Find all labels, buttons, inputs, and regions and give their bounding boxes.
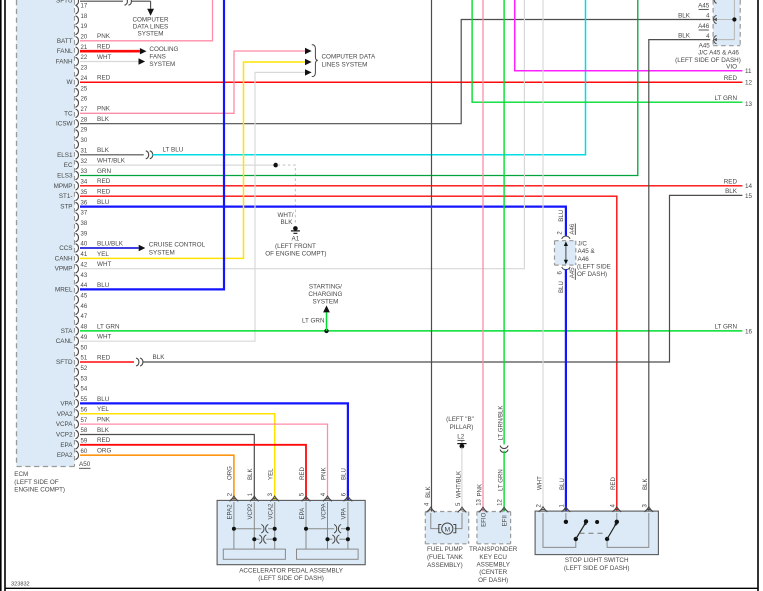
svg-text:VCP2: VCP2 <box>247 503 254 520</box>
stop light switch pin4 lead <box>616 513 618 520</box>
svg-text:30: 30 <box>81 138 88 144</box>
arrow computer data lines 1 <box>305 48 312 54</box>
ECM pin 35 ST1- <box>76 192 79 201</box>
wire LT BLU to top of page <box>153 0 586 155</box>
connector L2 symbol <box>461 441 463 443</box>
svg-text:WHT: WHT <box>97 261 111 268</box>
ECM pin 57 VCPA <box>76 420 79 429</box>
svg-text:CANL: CANL <box>56 338 73 345</box>
stop light switch contact dots left <box>574 537 578 541</box>
svg-text:VPMP: VPMP <box>55 266 73 273</box>
accelerator pedal pin 4 (VCPA) <box>323 499 331 502</box>
svg-text:EFII: EFII <box>502 515 509 526</box>
accelerator pedal pin 3 (VCA2) <box>271 499 279 502</box>
J/C dashed border bottom <box>713 45 740 47</box>
J/C pin A45 (clipped at top) <box>714 0 716 3</box>
svg-text:RED: RED <box>610 477 617 490</box>
svg-text:49: 49 <box>81 335 88 341</box>
svg-text:BLK: BLK <box>247 468 254 480</box>
svg-text:LT BLU: LT BLU <box>163 147 184 154</box>
junction block J/C A45 A46 (middle) <box>555 241 576 265</box>
ECM pin 47 <box>76 316 79 325</box>
wire VPMP WHT pin 42 to top of page <box>80 0 524 269</box>
svg-text:(LEFT SIDE OF DASH): (LEFT SIDE OF DASH) <box>564 565 630 572</box>
svg-text:60: 60 <box>81 449 88 455</box>
svg-text:48: 48 <box>81 325 88 331</box>
svg-text:19: 19 <box>81 24 88 30</box>
svg-text:WHT/BLK: WHT/BLK <box>455 471 462 498</box>
svg-text:A46: A46 <box>698 23 710 30</box>
svg-text:OF DASH): OF DASH) <box>478 577 508 584</box>
accelerator pedal assembly box <box>217 500 365 564</box>
svg-text:BATT: BATT <box>57 38 73 45</box>
wire SFTD RED pin 51 <box>80 361 134 363</box>
accelerator pedal internal leads <box>233 502 235 549</box>
ECM pin 26 <box>76 99 79 108</box>
stop light switch pin1 lead <box>565 513 567 520</box>
ECM pin 55 VPA <box>76 399 79 408</box>
svg-text:41: 41 <box>81 252 88 258</box>
accelerator pedal pin 1 (VCP2) <box>250 499 258 502</box>
wire BLU J/C A45 pin 6 to stop light switch pin 1 <box>565 269 567 511</box>
svg-text:35: 35 <box>81 190 88 196</box>
svg-text:BLU: BLU <box>558 281 565 293</box>
ECM pin 34 MPMP <box>76 182 79 191</box>
svg-text:18: 18 <box>81 14 88 20</box>
svg-text:46: 46 <box>81 304 88 310</box>
svg-text:56: 56 <box>81 408 88 414</box>
ground A1 <box>293 226 298 231</box>
ECM pin 22 FANH <box>76 57 79 66</box>
svg-text:1: 1 <box>559 504 565 508</box>
ECM pin 17 <box>76 5 79 14</box>
svg-text:37: 37 <box>81 211 88 217</box>
J/C internal junction dot <box>732 17 736 21</box>
ECM pin 52 <box>76 368 79 377</box>
stop light switch right blade <box>607 524 616 539</box>
svg-text:BLK: BLK <box>97 116 110 123</box>
svg-text:33: 33 <box>81 169 88 175</box>
J/C middle pin 2 arc <box>562 236 570 239</box>
ECM pin 54 <box>76 389 79 398</box>
svg-text:BLK: BLK <box>153 354 166 361</box>
accelerator pedal sensor sub-box 2 <box>297 549 359 559</box>
wire LT GRN to transponder pin 12 <box>503 451 505 512</box>
svg-text:4: 4 <box>425 502 431 506</box>
ECM pin 27 TC <box>76 109 79 118</box>
svg-text:WHT/: WHT/ <box>277 212 293 219</box>
wire VCP2 BLK pin 58 to accelerator pedal pin 1 <box>80 435 254 501</box>
svg-text:16: 16 <box>745 329 753 336</box>
svg-text:VCP2: VCP2 <box>56 432 73 439</box>
accelerator pedal sensor 2 lower bus <box>328 538 333 540</box>
arrow computer data lines 3 <box>305 69 312 75</box>
svg-text:YEL: YEL <box>97 406 109 413</box>
svg-text:1: 1 <box>248 492 254 496</box>
svg-text:15: 15 <box>745 193 753 200</box>
svg-text:CRUISE CONTROL: CRUISE CONTROL <box>149 241 206 248</box>
svg-text:PILLAR): PILLAR) <box>450 424 474 431</box>
wire TC PNK pin 27 to computer data lines system <box>80 51 305 113</box>
stop light switch mechanical link (dashed) <box>580 532 607 534</box>
inline connector ELS1 to LT BLU <box>146 151 149 159</box>
svg-text:RED: RED <box>724 75 738 82</box>
arrow into computer data lines system (top) <box>147 9 154 16</box>
svg-text:ST1-: ST1- <box>59 193 73 200</box>
svg-text:57: 57 <box>81 418 88 424</box>
page border bottom <box>5 587 758 589</box>
svg-text:RED: RED <box>299 467 306 480</box>
svg-text:28: 28 <box>81 117 88 123</box>
wire BLK J/C A45 pin 4 to stop light switch pin 3 <box>649 40 710 512</box>
svg-text:2: 2 <box>227 492 233 496</box>
svg-text:STA: STA <box>61 328 74 335</box>
svg-text:ECM: ECM <box>14 471 28 478</box>
accelerator pedal pin 5 (EPA) <box>302 499 310 502</box>
svg-text:54: 54 <box>81 387 88 393</box>
svg-text:LT GRN: LT GRN <box>302 318 325 325</box>
ECM pin 50 <box>76 347 79 356</box>
svg-text:24: 24 <box>81 76 88 82</box>
ECM pin 36 STP <box>76 202 79 211</box>
svg-text:BLK: BLK <box>97 427 110 434</box>
arrow to cooling fans system 2 <box>139 58 146 64</box>
svg-text:29: 29 <box>81 128 88 134</box>
wire PNK from top of page to transponder pin 13 <box>482 0 484 512</box>
svg-text:W: W <box>67 79 73 86</box>
svg-text:BLK: BLK <box>725 188 738 195</box>
svg-text:(LEFT SIDE OF: (LEFT SIDE OF <box>14 479 58 486</box>
ECM pin 31 ELS1 <box>76 151 79 160</box>
svg-text:FANH: FANH <box>56 59 73 66</box>
stop light switch pin 1 <box>562 509 570 512</box>
ECM pin 41 CANH <box>76 254 79 263</box>
wire EC WHT/BLK pin 32 <box>80 164 276 166</box>
svg-text:20: 20 <box>81 35 88 41</box>
svg-text:FANS: FANS <box>149 54 165 61</box>
svg-text:17: 17 <box>81 3 88 9</box>
wire ELS1 BLK pin 31 <box>80 154 144 156</box>
wire VPA BLU pin 55 to accelerator pedal pin 6 <box>80 403 348 500</box>
ECM pin 28 ICSW <box>76 119 79 128</box>
accelerator pedal sensor 1 lower bus <box>254 538 259 540</box>
ECM pin 39 <box>76 233 79 242</box>
svg-text:25: 25 <box>81 86 88 92</box>
wire MREL BLU pin 44 to top of page <box>80 0 224 289</box>
ECM pin 19 <box>76 26 79 35</box>
svg-text:31: 31 <box>81 149 88 155</box>
svg-text:BLU: BLU <box>341 468 348 480</box>
wire WHT/BLK L2 to fuel pump pin 5 <box>461 448 463 512</box>
ECM pin 58 VCP2 <box>76 430 79 439</box>
svg-text:(LEFT SIDE: (LEFT SIDE <box>577 263 611 270</box>
svg-text:36: 36 <box>81 200 88 206</box>
svg-text:ICSW: ICSW <box>56 121 72 128</box>
arrow to starting/charging system <box>323 305 330 312</box>
svg-text:ORG: ORG <box>97 448 111 455</box>
svg-text:MREL: MREL <box>55 286 73 293</box>
ECM pin 21 FANL <box>76 47 79 56</box>
svg-text:47: 47 <box>81 314 88 320</box>
svg-text:23: 23 <box>81 66 88 72</box>
ECM dashed border left <box>16 0 18 467</box>
svg-text:RED: RED <box>97 75 111 82</box>
accelerator pedal pin 6 (VPA) <box>344 499 352 502</box>
svg-text:STP: STP <box>60 204 72 211</box>
wire BLK from top of page to fuel pump pin 4 <box>431 0 433 512</box>
ECM pin 25 <box>76 88 79 97</box>
ECM pin 43 <box>76 275 79 284</box>
wire CANH YEL pin 41 to computer data lines system <box>80 62 305 258</box>
svg-text:COMPUTER: COMPUTER <box>132 16 168 23</box>
ECM pin 48 STA <box>76 327 79 336</box>
ECM pin 20 BATT <box>76 37 79 46</box>
accelerator pedal sensor 1 upper bus <box>234 528 262 530</box>
svg-text:RED: RED <box>97 354 111 361</box>
ECM pin 45 <box>76 296 79 305</box>
svg-text:FUEL PUMP: FUEL PUMP <box>427 546 463 553</box>
page border left inner <box>4 0 6 591</box>
svg-text:RED: RED <box>97 44 111 51</box>
J/C middle internal double arrow <box>565 245 567 262</box>
svg-text:EPA: EPA <box>60 442 73 449</box>
fuel pump motor symbol M <box>439 525 442 533</box>
stop light switch pin 3 <box>645 509 653 512</box>
ECM pin 51 SFTD <box>76 358 79 367</box>
ECM pin 18 <box>76 16 79 25</box>
accelerator pedal pin 2 (EPA2) <box>230 499 238 502</box>
svg-text:BLK: BLK <box>425 486 432 498</box>
ECM pin 53 <box>76 378 79 387</box>
svg-text:13: 13 <box>477 498 483 505</box>
svg-text:ELS3: ELS3 <box>57 173 73 180</box>
wire FANL RED pin 21 (thick) <box>80 50 140 53</box>
svg-text:TRANSPONDER: TRANSPONDER <box>469 546 518 553</box>
stop light switch pin 4 <box>613 509 621 512</box>
brace computer data lines system (right) <box>312 45 318 77</box>
arrow to cruise control system <box>139 245 146 251</box>
wire SFTD BLK to output 15 <box>143 195 743 362</box>
svg-text:ACCELERATOR PEDAL ASSEMBLY: ACCELERATOR PEDAL ASSEMBLY <box>239 567 344 574</box>
svg-text:12: 12 <box>745 80 753 87</box>
svg-text:OF ENGINE COMPT): OF ENGINE COMPT) <box>265 251 326 258</box>
svg-text:LT GRN/BLK: LT GRN/BLK <box>497 405 504 440</box>
wire EPA2 ORG pin 60 to accelerator pedal pin 2 <box>80 455 234 500</box>
svg-text:5: 5 <box>300 492 306 496</box>
ECM pin 24 W <box>76 78 79 87</box>
svg-text:WHT/BLK: WHT/BLK <box>97 158 126 165</box>
ECM dashed pin line <box>74 0 76 467</box>
svg-text:39: 39 <box>81 231 88 237</box>
junction block J/C A45 A46 (top right) fill <box>713 0 740 46</box>
svg-text:32: 32 <box>81 159 88 165</box>
ECM pin 42 VPMP <box>76 264 79 273</box>
svg-text:VPA2: VPA2 <box>57 411 73 418</box>
svg-text:SFTU: SFTU <box>56 0 73 4</box>
svg-text:11: 11 <box>745 68 752 75</box>
ECM pin 40 CCS <box>76 244 79 253</box>
svg-text:EC: EC <box>64 162 73 169</box>
wire SFTU pin16 BLK to inline connector <box>80 0 123 2</box>
svg-text:SYSTEM: SYSTEM <box>138 31 164 38</box>
svg-text:42: 42 <box>81 262 88 268</box>
svg-text:4: 4 <box>706 34 710 40</box>
page border left outer <box>0 0 2 591</box>
svg-text:2: 2 <box>537 504 543 508</box>
svg-text:55: 55 <box>81 397 88 403</box>
svg-text:YEL: YEL <box>97 251 109 258</box>
svg-text:PNK: PNK <box>97 106 111 113</box>
svg-text:A45 &: A45 & <box>578 248 596 255</box>
ECM pin 30 <box>76 140 79 149</box>
ECM pin 60 EPA2 <box>76 451 79 460</box>
wire EPA RED pin 59 to accelerator pedal pin 5 <box>80 445 306 501</box>
svg-text:CHARGING: CHARGING <box>308 291 342 298</box>
svg-text:323832: 323832 <box>11 582 30 588</box>
ECM pin 29 <box>76 130 79 139</box>
svg-text:34: 34 <box>81 180 88 186</box>
svg-text:44: 44 <box>81 283 88 289</box>
stop light switch left blade <box>576 524 585 539</box>
wire VCPA PNK pin 57 to accelerator pedal pin 4 <box>80 424 328 500</box>
svg-text:VIO: VIO <box>726 64 737 71</box>
fuel pump pin 5 <box>458 510 466 513</box>
wire LT GRN/BLK from top of page to inline connector <box>503 0 505 444</box>
svg-text:59: 59 <box>81 439 88 445</box>
svg-text:CANH: CANH <box>55 255 73 262</box>
svg-text:6: 6 <box>558 271 564 275</box>
wire ICSW BLK pin 28 to J/C A46 pin 4 <box>80 20 710 124</box>
svg-text:PNK: PNK <box>97 33 111 40</box>
svg-text:52: 52 <box>81 366 88 372</box>
svg-text:STARTING/: STARTING/ <box>309 283 342 290</box>
svg-text:LT GRN: LT GRN <box>97 323 120 330</box>
svg-text:BLU: BLU <box>97 396 110 403</box>
page border right <box>757 0 759 591</box>
transponder pin 12 <box>500 510 508 513</box>
svg-text:RED: RED <box>97 178 111 185</box>
wire CCS BLU/BLK pin 40 to cruise control system <box>80 247 139 249</box>
ECM pin 44 MREL <box>76 285 79 294</box>
wire BATT PNK pin 20 <box>80 0 213 41</box>
svg-text:VPA: VPA <box>60 400 73 407</box>
svg-text:EPA2: EPA2 <box>227 504 234 520</box>
svg-text:BLK: BLK <box>678 33 691 40</box>
stop light switch pin 2 <box>539 509 547 512</box>
svg-text:ASSEMBLY: ASSEMBLY <box>476 562 510 569</box>
svg-text:A46: A46 <box>578 256 590 263</box>
svg-text:(LEFT SIDE OF DASH): (LEFT SIDE OF DASH) <box>258 575 324 582</box>
svg-text:LT GRN: LT GRN <box>497 469 504 491</box>
wire branch to starting/charging system <box>326 312 328 331</box>
svg-text:(FUEL TANK: (FUEL TANK <box>427 554 464 561</box>
svg-text:PNK: PNK <box>476 484 483 497</box>
svg-text:KEY ECU: KEY ECU <box>479 554 507 561</box>
wire CANL WHT pin 49 to computer data lines system <box>80 72 305 341</box>
transponder pin 13 <box>479 510 487 513</box>
svg-text:VPA: VPA <box>341 507 348 520</box>
svg-text:ELS1: ELS1 <box>57 152 73 159</box>
svg-text:OF DASH): OF DASH) <box>577 271 607 278</box>
svg-text:4: 4 <box>610 504 616 508</box>
wire FANH WHT pin 22 <box>80 61 139 63</box>
stop light switch internal pin3 rail <box>607 513 649 547</box>
ECM pin 38 <box>76 223 79 232</box>
stop light switch box <box>535 511 658 554</box>
svg-text:LT GRN: LT GRN <box>714 95 737 102</box>
svg-text:WHT: WHT <box>97 334 111 341</box>
wire STP BLU pin 36 to J/C A46 pin 2 <box>80 207 566 237</box>
accelerator pedal sensor 2 upper bus <box>306 528 334 530</box>
svg-text:3: 3 <box>642 504 648 508</box>
wire SFTU to computer data lines system <box>131 0 151 2</box>
J/C pin 4 A46 <box>714 15 717 23</box>
wire STA LT GRN pin 48 to output 16 <box>80 330 742 332</box>
svg-text:PNK: PNK <box>97 417 111 424</box>
svg-text:EFIO: EFIO <box>481 512 488 526</box>
wire VIO from top of page to output 11 <box>515 0 743 71</box>
svg-text:LINES SYSTEM: LINES SYSTEM <box>322 62 368 69</box>
J/C pin 4 A45 <box>714 35 717 43</box>
ECM pin 46 <box>76 306 79 315</box>
wire ELS3 GRN pin 33 to top of page <box>80 0 638 176</box>
svg-text:GRN: GRN <box>97 168 111 175</box>
svg-text:43: 43 <box>81 273 88 279</box>
transponder key ECU box <box>477 512 511 544</box>
svg-text:EPA: EPA <box>299 507 306 520</box>
svg-text:(LEFT "B": (LEFT "B" <box>446 416 474 423</box>
svg-text:38: 38 <box>81 221 88 227</box>
inline connector SFTD to BLK <box>136 358 139 366</box>
svg-text:12: 12 <box>498 498 504 505</box>
svg-text:BLU: BLU <box>559 478 566 490</box>
svg-text:SFTD: SFTD <box>56 359 73 366</box>
svg-text:STOP LIGHT SWITCH: STOP LIGHT SWITCH <box>565 557 629 564</box>
fuel pump motor wiring <box>431 513 440 529</box>
svg-text:A45: A45 <box>698 3 710 10</box>
svg-text:ASSEMBLY): ASSEMBLY) <box>427 562 463 569</box>
svg-text:22: 22 <box>81 55 88 61</box>
svg-text:51: 51 <box>81 356 88 362</box>
svg-text:BLK: BLK <box>97 147 110 154</box>
junction dot EC ground branch <box>273 163 278 168</box>
dashed ground lead to A1 <box>278 165 296 224</box>
svg-text:VCA2: VCA2 <box>268 503 275 520</box>
svg-text:(CENTER: (CENTER <box>479 569 507 576</box>
svg-text:BLK: BLK <box>281 219 294 226</box>
svg-text:BLU/BLK: BLU/BLK <box>97 240 124 247</box>
wire WHT from top of page to stop light switch pin 2 <box>542 0 544 511</box>
inline connector LT GRN <box>500 446 508 449</box>
arrow computer data lines 2 <box>305 59 312 65</box>
ECM dashed border bottom <box>17 466 75 468</box>
svg-text:RED: RED <box>97 189 111 196</box>
svg-text:A1: A1 <box>292 235 300 242</box>
ECM pin 49 CANL <box>76 337 79 346</box>
ECM pin 59 EPA <box>76 441 79 450</box>
svg-text:3: 3 <box>268 492 274 496</box>
svg-text:BLK: BLK <box>642 478 649 490</box>
svg-text:VCPA: VCPA <box>320 502 327 519</box>
svg-text:CCS: CCS <box>59 245 72 252</box>
inline connector on SFTU wire <box>125 0 128 5</box>
svg-text:58: 58 <box>81 428 88 434</box>
wire W RED pin 24 to output 12 <box>80 81 742 83</box>
svg-text:RED: RED <box>724 179 738 186</box>
wire MPMP RED pin 34 to output 14 <box>80 185 742 187</box>
svg-text:13: 13 <box>745 101 753 108</box>
stop light switch internal pin2 rail <box>543 513 576 547</box>
